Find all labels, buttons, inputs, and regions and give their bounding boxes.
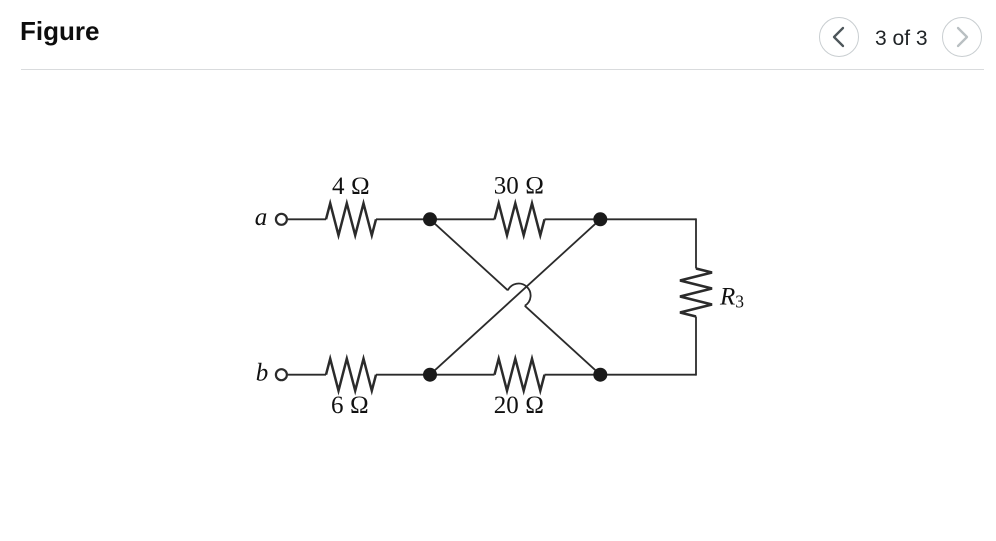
wire node d to top-right corner (600, 218, 696, 220)
terminal a (open circle) (276, 214, 287, 225)
svg-text:6 Ω: 6 Ω (331, 392, 369, 419)
terminal b (open circle) (276, 369, 287, 380)
horizontal divider rule (21, 69, 984, 70)
prev page button (819, 17, 859, 57)
next page button (942, 17, 982, 57)
crossover wire e to d (ascending diagonal) (430, 219, 600, 374)
resistor 4 ohm (326, 203, 376, 235)
wire R3 down to bottom-right corner (695, 317, 697, 376)
svg-text:b: b (256, 360, 269, 387)
wire 6ohm to node e (376, 374, 430, 376)
wire hop over crossing (508, 284, 531, 306)
wire 20ohm to node f (545, 374, 601, 376)
svg-text:20 Ω: 20 Ω (494, 392, 544, 419)
page indicator "3 of 3" (875, 27, 928, 51)
wire bottom-right corner to node f (600, 374, 696, 376)
svg-text:4 Ω: 4 Ω (332, 173, 370, 200)
junction node d (593, 212, 607, 226)
header title "Figure" (20, 16, 99, 47)
wire node e to R 20ohm (430, 374, 495, 376)
wire b to R 6ohm (288, 374, 326, 376)
wire node c to R 30ohm (430, 218, 495, 220)
svg-text:R3: R3 (719, 283, 744, 311)
resistor 30 ohm (495, 203, 545, 235)
junction node c (423, 212, 437, 226)
crossover wire c to f upper segment (430, 219, 508, 290)
svg-text:a: a (255, 204, 268, 231)
resistor R3 (vertical) (680, 269, 712, 317)
svg-text:30 Ω: 30 Ω (494, 173, 544, 200)
junction node e (423, 368, 437, 382)
crossover wire c to f lower segment (525, 306, 601, 375)
resistor 6 ohm (326, 359, 376, 391)
wire right side down to R3 (695, 218, 697, 268)
resistor 20 ohm (495, 359, 545, 391)
junction node f (593, 368, 607, 382)
wire a to R 4ohm (288, 218, 326, 220)
wire 4ohm to node c (376, 218, 430, 220)
wire 30ohm to node d (545, 218, 601, 220)
